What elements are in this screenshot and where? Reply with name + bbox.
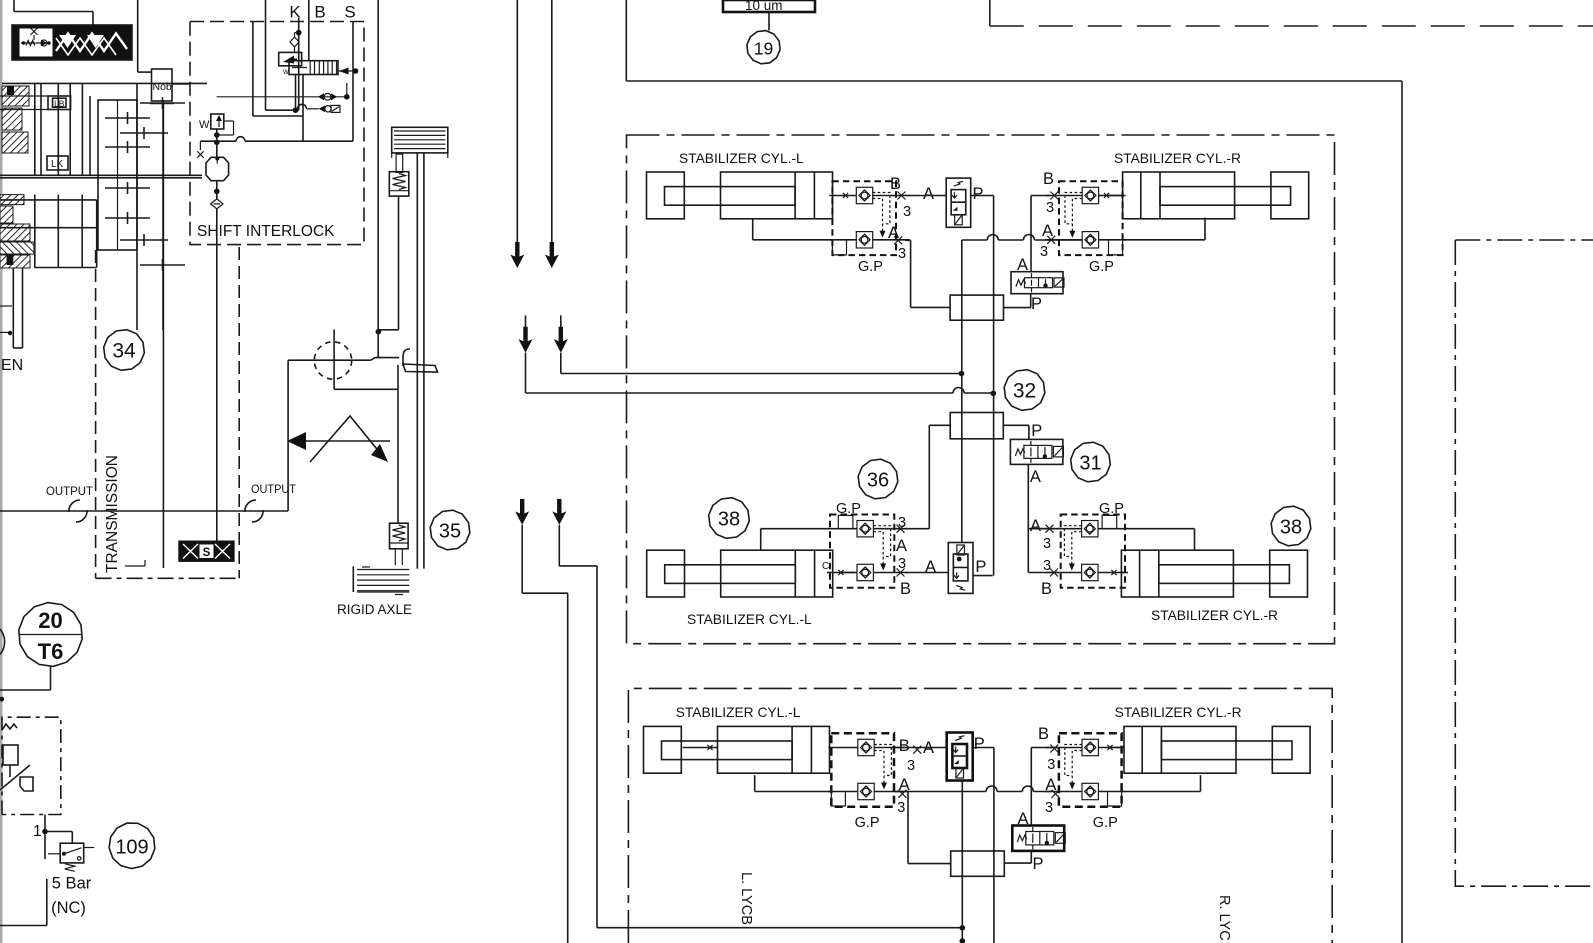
- stabilizer cylinder R1b: [1121, 550, 1307, 597]
- svg-text:STABILIZER CYL.-R: STABILIZER CYL.-R: [1115, 705, 1242, 720]
- svg-text:P: P: [974, 735, 985, 753]
- pilot check block L1b: [827, 515, 908, 588]
- wire valve T1 to riser: [971, 196, 994, 394]
- label P valve T1: [973, 185, 984, 203]
- wire B-line left to valve T1: [905, 195, 946, 197]
- wire A L2 to manifold3: [908, 792, 951, 864]
- svg-text:S: S: [344, 3, 355, 22]
- wire A L1 to manifold1: [905, 240, 950, 307]
- svg-text:G.P: G.P: [1093, 815, 1118, 831]
- svg-text:(NC): (NC): [51, 899, 86, 917]
- balloon 19: [747, 31, 780, 64]
- svg-text:31: 31: [1079, 453, 1101, 475]
- manifold block 2: [950, 413, 1003, 439]
- dashed region top right: [990, 0, 1593, 26]
- wire suspension valve to node: [376, 196, 399, 334]
- pressure switch 109: [48, 843, 94, 871]
- feed arrow 4: [554, 315, 568, 352]
- regulator dash-dot box: [2, 717, 61, 814]
- dash-dot region right: [1455, 240, 1593, 886]
- wire cyl L2 rod port: [683, 745, 718, 750]
- wire cyl R2 base port: [1122, 775, 1201, 791]
- label P valve31: [1031, 422, 1042, 440]
- label 5 Bar: [52, 875, 92, 893]
- port label 3B R1b: [1041, 558, 1058, 598]
- svg-text:OUTPUT: OUTPUT: [46, 484, 93, 498]
- svg-text:B: B: [1043, 170, 1054, 188]
- svg-text:STABILIZER CYL.-R: STABILIZER CYL.-R: [1151, 608, 1278, 623]
- regulator valve pictorial: [0, 724, 33, 791]
- wire output riser: [287, 360, 289, 511]
- balloon 38 R: [1271, 506, 1311, 546]
- stabilizer cylinder L1: [647, 172, 833, 219]
- G.P stub R2: [1108, 792, 1122, 807]
- wire to Nob box: [138, 0, 152, 72]
- stabilizer cylinder L2: [644, 726, 830, 773]
- wire cyl R1 rod port: [1099, 193, 1123, 198]
- G.P stub L2: [831, 792, 845, 807]
- svg-text:G.P: G.P: [836, 501, 861, 517]
- wire cyl R1b top port: [1029, 529, 1195, 551]
- svg-text:35: 35: [439, 521, 461, 543]
- label STABILIZER CYL.-L (1b): [687, 612, 812, 627]
- svg-text:EN: EN: [1, 357, 23, 374]
- wire sensor bottom: [334, 365, 398, 523]
- wire B drop: [308, 0, 310, 61]
- wire pump inlet: [197, 129, 217, 158]
- svg-text:34: 34: [112, 340, 136, 363]
- rigid axle symbol: [353, 566, 409, 594]
- svg-text:T6: T6: [38, 639, 64, 664]
- svg-text:B: B: [900, 580, 911, 598]
- svg-text:LK: LK: [51, 159, 64, 170]
- wire arrow4 to manifold line: [561, 353, 965, 377]
- wire cyl L2 base port: [755, 775, 832, 791]
- label G.P R1: [1089, 259, 1114, 275]
- wire manifold2 to valve31: [1003, 425, 1029, 439]
- wire filter to balloon: [768, 12, 770, 31]
- label A valve31: [1030, 468, 1041, 486]
- manifold block 3: [951, 851, 1005, 876]
- port label B R2: [1038, 725, 1058, 773]
- svg-text:SHIFT INTERLOCK: SHIFT INTERLOCK: [197, 223, 335, 240]
- pilot check block L2: [828, 733, 908, 807]
- port label B: [314, 3, 325, 22]
- port label B R1: [1043, 170, 1058, 216]
- wire S port: [352, 22, 354, 142]
- svg-text:STABILIZER CYL.-L: STABILIZER CYL.-L: [687, 612, 812, 627]
- label STABILIZER CYL.-L (1): [679, 151, 804, 166]
- svg-text:G.P: G.P: [1089, 259, 1114, 275]
- speed sensor dashed circle: [314, 330, 351, 390]
- port label S: [344, 3, 355, 22]
- svg-text:3: 3: [897, 800, 905, 816]
- label G.P R2: [1093, 815, 1118, 831]
- transmission gear train pictorial: [0, 83, 207, 348]
- wire main feed line: [377, 0, 379, 358]
- spool end arrow: [338, 68, 358, 75]
- svg-text:RIGID AXLE: RIGID AXLE: [337, 602, 412, 617]
- drawbar fork symbol: [403, 349, 438, 372]
- label RIGID AXLE: [337, 602, 412, 617]
- sensor box Nob: [150, 69, 174, 104]
- svg-text:STABILIZER CYL.-L: STABILIZER CYL.-L: [679, 151, 804, 166]
- wire B R1b: [1029, 572, 1059, 574]
- pilot valve 32 (upper center): [946, 178, 971, 227]
- grey page edge strip: [0, 0, 3, 943]
- label OUTPUT right: [251, 482, 296, 496]
- svg-text:A: A: [925, 558, 936, 576]
- port label B L2: [899, 737, 922, 774]
- port label K: [289, 3, 301, 22]
- svg-text:3: 3: [898, 246, 906, 262]
- wire riser 993 lower: [993, 393, 995, 576]
- label P valve T2: [974, 735, 985, 753]
- wire sensor line: [288, 358, 399, 361]
- linkage spring symbol: [287, 416, 390, 462]
- balloon 31: [1071, 442, 1111, 482]
- svg-text:3: 3: [1043, 558, 1051, 574]
- port label B L1: [890, 175, 911, 220]
- label G.P L1b: [836, 501, 861, 517]
- svg-text:TRANSMISSION: TRANSMISSION: [104, 455, 121, 573]
- port label 3A L1b: [896, 515, 907, 555]
- wire arrow3 to manifold line: [526, 353, 997, 397]
- wire K loop: [253, 22, 303, 142]
- wire B L2 to valve T2: [894, 747, 947, 749]
- feed arrow 6: [552, 499, 566, 525]
- svg-text:B: B: [1038, 725, 1049, 743]
- suspension valve upper stem: [396, 154, 403, 172]
- pump drain diamond filter: [211, 181, 223, 209]
- svg-text:G.P: G.P: [855, 815, 880, 831]
- port label A L1: [888, 224, 906, 262]
- label STABILIZER CYL.-R (1): [1114, 151, 1241, 166]
- interlock check line: [217, 83, 350, 100]
- wire solval upper to manifold: [1004, 294, 1031, 308]
- svg-text:3: 3: [903, 204, 911, 220]
- svg-text:G.P: G.P: [1099, 501, 1124, 517]
- wire switch drain: [0, 879, 47, 926]
- svg-text:3: 3: [1047, 757, 1055, 773]
- G.P stub R1: [1109, 240, 1123, 255]
- transmission dashed border left: [95, 250, 97, 578]
- svg-text:3: 3: [898, 515, 906, 531]
- feed arrow 3: [519, 315, 533, 352]
- G.P stub L1b: [838, 515, 853, 528]
- wire cyl R1b base port: [1111, 570, 1125, 575]
- stabilizer cylinder L1b: [647, 550, 833, 597]
- svg-text:19: 19: [754, 39, 773, 59]
- label G.P L2: [855, 815, 880, 831]
- svg-text:109: 109: [115, 837, 148, 859]
- svg-text:10 um: 10 um: [745, 0, 783, 13]
- pressure reducing valve W: [199, 114, 224, 131]
- pilot valve 36: [948, 543, 973, 594]
- label STABILIZER CYL.-R (2): [1115, 705, 1242, 720]
- feed arrow 5: [515, 499, 529, 525]
- edge balloon arc: [0, 629, 5, 655]
- output shaft line: [0, 510, 288, 512]
- drain line with hop: [296, 104, 319, 109]
- solenoid valve (A-P upper): [1011, 272, 1064, 294]
- svg-text:STABILIZER CYL.-L: STABILIZER CYL.-L: [676, 705, 801, 720]
- wire valve T2 right: [973, 748, 994, 943]
- pilot check block R1b: [1047, 515, 1128, 588]
- transmission dashed border right: [238, 247, 240, 578]
- svg-text:C: C: [822, 561, 829, 572]
- interlock main spool valve: [282, 61, 338, 76]
- label TRANSMISSION: [104, 455, 145, 573]
- label G.P R1b: [1099, 501, 1124, 517]
- interlock pilot valve: [279, 52, 302, 65]
- svg-text:20: 20: [38, 608, 62, 633]
- label NC: [51, 899, 86, 917]
- wire to clutch top: [14, 0, 93, 25]
- wire cyl L1 base port: [753, 219, 833, 240]
- wire B R2 corner: [1031, 748, 1058, 826]
- stabilizer group 1 border: [627, 135, 1335, 644]
- label STABILIZER CYL.-R (1b): [1151, 608, 1278, 623]
- svg-text:3: 3: [1040, 244, 1048, 260]
- label P solval upper: [1031, 295, 1042, 313]
- svg-text:38: 38: [1280, 517, 1302, 539]
- balloon 109: [109, 823, 155, 868]
- svg-text:L. LYCB: L. LYCB: [738, 872, 754, 925]
- pilot check block R2: [1045, 733, 1125, 807]
- svg-text:A: A: [1042, 222, 1053, 240]
- suspension valve lower: [390, 523, 409, 565]
- wire Nob to interlock: [172, 83, 191, 85]
- balloon 34: [104, 330, 145, 371]
- double line mast: [417, 153, 424, 569]
- filter 10um: [723, 0, 815, 13]
- svg-text:P: P: [975, 558, 986, 576]
- G.P stub R1b: [1102, 515, 1117, 528]
- pilot check block L1: [829, 181, 910, 255]
- label STABILIZER CYL.-L (2): [676, 705, 801, 720]
- transmission border bottom: [96, 577, 240, 579]
- wire riser 961: [961, 240, 963, 543]
- svg-text:3: 3: [907, 758, 915, 774]
- wire cyl L1b top port: [761, 529, 830, 551]
- label G.P L1: [858, 259, 883, 275]
- wire regulator to switch: [42, 815, 72, 860]
- wire A-line 2: [894, 786, 1051, 792]
- balloon 36: [858, 459, 898, 499]
- svg-text:A: A: [923, 739, 934, 757]
- svg-text:B: B: [899, 737, 910, 755]
- pilot check block R1: [1045, 181, 1126, 255]
- pilot valve T2: [947, 733, 973, 781]
- svg-text:K: K: [289, 3, 301, 22]
- label A valve T1: [923, 185, 934, 203]
- wire valve31 down: [1028, 464, 1050, 572]
- svg-text:A: A: [896, 537, 907, 555]
- svg-text:B: B: [314, 3, 325, 22]
- gear pump: [206, 157, 229, 181]
- port label A R1: [1040, 222, 1055, 260]
- svg-text:LB: LB: [54, 99, 65, 109]
- svg-text:R. LYC: R. LYC: [1216, 895, 1232, 941]
- wire line2 tail: [988, 392, 994, 394]
- svg-text:w: w: [282, 67, 289, 76]
- manifold block 1: [950, 295, 1003, 320]
- svg-text:P: P: [1031, 422, 1042, 440]
- svg-text:W: W: [199, 119, 210, 131]
- svg-text:B: B: [1041, 580, 1052, 598]
- stabilizer group 2 border: [628, 688, 1332, 943]
- wire valve W loop: [214, 121, 234, 145]
- svg-text:STABILIZER CYL.-R: STABILIZER CYL.-R: [1114, 151, 1241, 166]
- label P valve36: [975, 558, 986, 576]
- svg-text:36: 36: [867, 470, 889, 492]
- wire pump to gearbox S: [216, 209, 218, 541]
- wire balloon 20 drop: [0, 667, 51, 702]
- wire A R1 line: [962, 235, 1083, 241]
- label A solval upper: [1017, 256, 1028, 274]
- svg-text:3: 3: [1045, 800, 1053, 816]
- wire Nob output: [162, 104, 164, 569]
- svg-text:3: 3: [1046, 200, 1054, 216]
- drain check with orifice: [319, 105, 341, 112]
- svg-text:5 Bar: 5 Bar: [52, 875, 92, 893]
- stabilizer cylinder R1: [1123, 172, 1309, 219]
- interlock drain wire: [293, 75, 299, 113]
- label EN: [1, 357, 23, 374]
- svg-text:P: P: [973, 185, 984, 203]
- feed arrow 1: [510, 0, 524, 268]
- svg-text:G.P: G.P: [858, 259, 883, 275]
- label 1: [33, 823, 42, 840]
- clutch pack K (black component): [12, 25, 132, 60]
- svg-text:P: P: [1033, 855, 1044, 873]
- wire cyl R1 base port: [1123, 218, 1205, 240]
- svg-text:3: 3: [898, 556, 906, 572]
- shift interlock dashed enclosure: [190, 22, 364, 245]
- svg-text:A: A: [1017, 256, 1028, 274]
- suspension valve upper: [389, 172, 409, 196]
- wire arrow6 down: [559, 525, 965, 943]
- double check valve: [318, 93, 337, 100]
- gearbox mode box S: [179, 541, 234, 561]
- svg-text:38: 38: [718, 509, 740, 531]
- break symbol left: [69, 500, 87, 522]
- svg-text:A: A: [1030, 468, 1041, 486]
- svg-text:A: A: [1030, 517, 1041, 535]
- wire cyl L1b base port: [838, 570, 855, 575]
- feed arrow 2: [545, 0, 559, 268]
- svg-text:1: 1: [33, 823, 42, 840]
- label A valve31b: [1018, 810, 1029, 828]
- svg-text:A: A: [923, 185, 934, 203]
- balloon 35: [430, 510, 470, 550]
- wire pump pressure line: [200, 137, 353, 142]
- wire B L1b to valve36: [905, 572, 948, 574]
- wire cyl L1 rod port: [843, 193, 848, 198]
- label A valve T2: [923, 739, 934, 757]
- break symbol right: [245, 500, 263, 522]
- wire manifold2 left drop: [905, 425, 950, 528]
- label L. LYCB rotated: [738, 872, 754, 925]
- balloon 20/T6: [19, 603, 83, 667]
- label OUTPUT left: [46, 484, 93, 498]
- wire valve36 right: [973, 575, 993, 577]
- port label A R2: [1045, 776, 1060, 816]
- balloon 38 L: [709, 498, 750, 539]
- balloon 32: [1004, 370, 1045, 411]
- svg-text:B: B: [890, 175, 901, 193]
- port label A L2: [897, 776, 909, 816]
- port label A3 R1b: [1030, 517, 1054, 552]
- stabilizer cylinder R2: [1124, 726, 1310, 773]
- wire valve31b to manifold3: [1004, 851, 1031, 863]
- svg-text:32: 32: [1013, 380, 1036, 403]
- G.P stub L1: [832, 240, 846, 255]
- svg-text:OUTPUT: OUTPUT: [251, 482, 296, 496]
- wire arrow5 down: [522, 525, 568, 943]
- label P valve31b: [1033, 855, 1044, 873]
- wire B loop: [266, 0, 302, 110]
- wire B R1 corner: [1031, 196, 1050, 272]
- svg-text:3: 3: [1043, 536, 1051, 552]
- solenoid valve 31b: [1012, 826, 1065, 851]
- solenoid valve 31: [1010, 439, 1063, 464]
- label R. LYC rotated: [1216, 895, 1232, 941]
- check valve pilot diamond: [290, 33, 299, 53]
- svg-text:S: S: [203, 547, 211, 559]
- label A valve36: [925, 558, 936, 576]
- wire cyl R2 rod port: [1107, 745, 1124, 750]
- leaf pack symbol: [392, 127, 448, 158]
- upper circuit box border: [626, 0, 1402, 943]
- svg-text:P: P: [1031, 295, 1042, 313]
- wire valve T2 bottom: [961, 781, 963, 943]
- port label 3B L1b: [897, 556, 912, 598]
- label SHIFT INTERLOCK: [197, 223, 335, 240]
